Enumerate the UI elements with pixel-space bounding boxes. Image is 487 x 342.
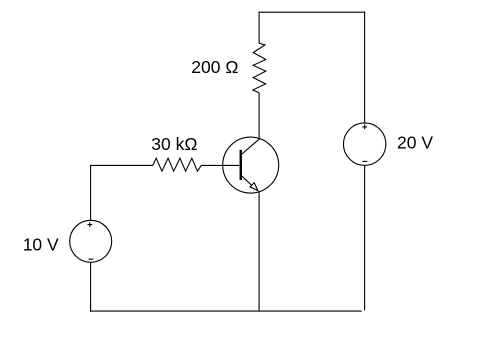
svg-text:30 kΩ: 30 kΩ — [151, 134, 197, 154]
svg-text:20 V: 20 V — [397, 133, 433, 153]
svg-text:10 V: 10 V — [23, 235, 59, 255]
svg-text:200 Ω: 200 Ω — [191, 57, 238, 77]
